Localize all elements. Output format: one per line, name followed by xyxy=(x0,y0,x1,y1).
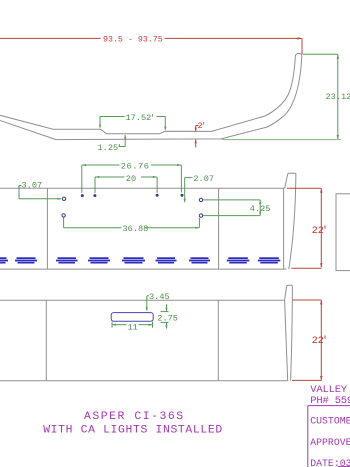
mounting holes: open circles xyxy=(62,197,203,217)
dimension 2 (red, step height) xyxy=(195,126,199,148)
svg-text:22': 22' xyxy=(312,225,328,237)
dimension 22 bottom view (red) xyxy=(292,300,322,380)
dimension 1.25 (green, recess depth leader) xyxy=(119,135,127,147)
svg-text:11: 11 xyxy=(128,323,138,333)
svg-text:CUSTOMER:: CUSTOMER: xyxy=(310,415,350,426)
seam right xyxy=(218,188,220,269)
svg-text:2.07: 2.07 xyxy=(193,174,214,184)
svg-text:22': 22' xyxy=(312,335,328,347)
dimension 23.12 (green, height of end) xyxy=(222,54,341,139)
svg-text:ASPER CI-36S: ASPER CI-36S xyxy=(84,411,185,423)
svg-text:2': 2' xyxy=(198,121,207,131)
svg-text:4.25: 4.25 xyxy=(250,204,271,214)
dimension 3.45 (green leader) xyxy=(146,296,149,312)
license plate slot xyxy=(111,313,153,322)
svg-text:17.52': 17.52' xyxy=(126,113,156,123)
dimension 36.88 (green) xyxy=(64,218,200,229)
seam right xyxy=(217,300,219,381)
dimension 22 front view (red) xyxy=(287,188,322,268)
svg-text:23.12': 23.12' xyxy=(326,92,350,102)
dimension 4.25 (green) xyxy=(203,200,261,216)
svg-text:WITH CA LIGHTS INSTALLED: WITH CA LIGHTS INSTALLED xyxy=(43,425,223,437)
end cap with fin xyxy=(285,285,293,381)
dimension 93.5 - 93.75 (red, overall length) xyxy=(0,37,302,54)
dimension 3.07 (green leader to hole) xyxy=(19,185,62,199)
front view right reference rectangle (clipped at edge) xyxy=(336,194,350,271)
CA light lenses (blue dashes) xyxy=(0,257,280,263)
end cap left edge xyxy=(283,188,285,269)
svg-text:DATE:: DATE: xyxy=(310,458,339,467)
dimension 20 (green) xyxy=(95,176,157,193)
title block xyxy=(310,384,350,407)
svg-text:3.45: 3.45 xyxy=(149,292,170,302)
dimension 26.76 (green) xyxy=(82,164,182,193)
svg-text:03-2: 03-2 xyxy=(340,458,350,467)
dimension 17.52 (green, recess width) xyxy=(99,117,166,131)
svg-text:VALLEY: VALLEY xyxy=(310,384,348,396)
svg-text:20: 20 xyxy=(126,174,136,184)
svg-text:1.25': 1.25' xyxy=(98,143,122,153)
date underline xyxy=(338,466,350,467)
seam left xyxy=(46,188,48,269)
dimension 2.07 (green leader) xyxy=(184,178,193,203)
svg-text:3.07: 3.07 xyxy=(22,180,43,190)
svg-text:26.76: 26.76 xyxy=(121,161,150,171)
svg-text:APPROVED:: APPROVED: xyxy=(310,437,350,448)
svg-text:2.75: 2.75 xyxy=(157,314,178,324)
mounting holes: filled dots xyxy=(81,194,184,197)
seam left xyxy=(45,300,47,381)
main title text xyxy=(43,411,223,436)
dimension 11 (green, plate width) xyxy=(112,322,153,328)
end cap tab and right edge xyxy=(285,173,296,269)
dimension 2.75 (green) xyxy=(161,304,169,328)
front view: outline xyxy=(0,173,296,269)
top view bumper profile xyxy=(0,53,302,139)
svg-text:93.5 - 93.75: 93.5 - 93.75 xyxy=(103,36,163,45)
bottom view: outline xyxy=(0,285,292,381)
svg-text:36.88: 36.88 xyxy=(123,224,149,234)
